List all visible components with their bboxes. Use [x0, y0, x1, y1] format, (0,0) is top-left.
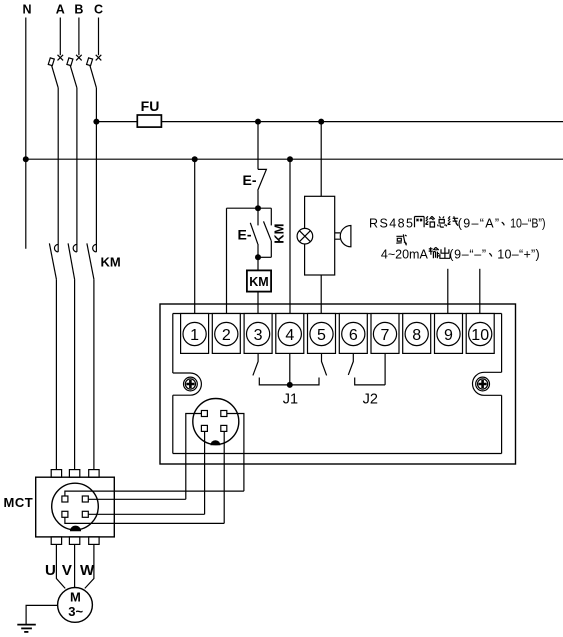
svg-text:B: B	[74, 3, 83, 17]
wire C upper	[98, 18, 100, 56]
jumper J1 terminal3 blade	[253, 353, 258, 375]
wire U lead	[56, 544, 65, 588]
connector U1 key notch	[210, 440, 220, 445]
terminal 2	[212, 314, 240, 354]
node rail1-lamp junction	[318, 119, 324, 125]
wire phase A to MCT	[55, 279, 57, 469]
MCT key notch	[70, 526, 81, 532]
wire A mid vertical	[57, 88, 59, 252]
coil KM	[257, 257, 259, 270]
breaker QF pole B	[67, 55, 82, 88]
label RS485 line3	[381, 247, 540, 261]
contactor KM pole A	[49, 243, 58, 279]
MCT bushing bottom V	[69, 537, 79, 545]
screw tab right	[473, 372, 502, 395]
svg-text:10–“+”): 10–“+”)	[497, 247, 540, 261]
MCT pin BL	[62, 511, 68, 517]
svg-text:MCT: MCT	[4, 495, 34, 510]
transformer MCT box	[36, 477, 115, 537]
svg-text:8: 8	[412, 327, 421, 344]
screw right	[476, 377, 490, 391]
wire C MCT link	[88, 513, 204, 515]
wire W lead	[85, 544, 94, 588]
wire phase C to MCT	[93, 279, 95, 469]
node parallel bottom junction	[255, 254, 261, 260]
svg-text:A: A	[56, 3, 65, 17]
svg-text:4~20mA: 4~20mA	[381, 247, 429, 261]
contactor KM pole C	[87, 243, 97, 279]
jumper J1 bracket	[259, 378, 319, 385]
wire A upper	[59, 18, 61, 56]
svg-text:(9–“–”: (9–“–”	[449, 247, 486, 261]
wire D MCT link	[65, 517, 224, 523]
wire rail 1	[96, 121, 563, 123]
wire pinTL left	[186, 414, 202, 500]
fuse FU	[137, 115, 161, 127]
svg-text:3~: 3~	[68, 604, 83, 619]
svg-text:3: 3	[254, 327, 263, 344]
label RS485 line1	[369, 216, 546, 230]
svg-text:(9–“A”: (9–“A”	[458, 216, 499, 230]
MCT pin TR	[82, 496, 88, 502]
node parallel top junction	[255, 205, 261, 211]
terminal 10	[466, 314, 494, 354]
wire rail2 to terminal 1	[194, 159, 196, 322]
sounder HA	[335, 226, 351, 247]
terminal 9	[435, 314, 463, 354]
terminal 4	[276, 314, 304, 354]
svg-text:M: M	[70, 590, 81, 605]
wire parallel top rail	[227, 207, 272, 209]
terminal 3	[244, 314, 272, 354]
wire pinBR down	[223, 431, 225, 523]
svg-text:4: 4	[285, 327, 294, 344]
node N-rail2 junction	[23, 156, 29, 162]
terminal 1	[181, 314, 209, 354]
connector U1 pin BL	[201, 425, 207, 431]
motor M circle	[58, 588, 93, 623]
lamp HL circle	[297, 228, 313, 244]
svg-text:RS485: RS485	[369, 216, 413, 230]
svg-text:W: W	[80, 562, 95, 579]
svg-text:10: 10	[471, 327, 489, 344]
svg-text:J2: J2	[363, 391, 378, 407]
wire rail2 to terminal 4	[289, 159, 291, 322]
breaker QF pole C	[87, 55, 102, 88]
screw tab left	[173, 373, 202, 395]
wire B upper	[78, 18, 80, 56]
wire N vertical	[25, 18, 27, 249]
node J1 junction	[287, 382, 293, 388]
wire A MCT link	[65, 491, 244, 496]
connector U1 pin BR	[221, 425, 227, 431]
terminal 8	[403, 314, 431, 354]
svg-text:V: V	[62, 562, 72, 579]
wire C mid vertical	[95, 88, 97, 252]
wire pinBL down	[204, 431, 206, 514]
wire branch to terminal 2	[226, 208, 228, 322]
ground symbol	[17, 625, 36, 632]
screw left	[184, 377, 198, 391]
svg-text:E-: E-	[243, 172, 257, 188]
MCT pin BR	[82, 511, 88, 517]
terminal 6	[339, 314, 367, 354]
jumper J2 terminal6 blade	[348, 353, 353, 375]
wire to terminal 9	[447, 269, 449, 323]
svg-text:FU: FU	[141, 98, 160, 114]
node rail2-t4 junction	[287, 156, 293, 162]
svg-text:5: 5	[317, 327, 326, 344]
connector U1 pin TL	[201, 411, 207, 417]
label huo	[396, 234, 406, 245]
lamp unit box	[305, 196, 335, 275]
wire to terminal 10	[479, 269, 481, 323]
wire terminal4 to J1	[289, 353, 291, 385]
svg-text:KM: KM	[249, 275, 268, 289]
wire pinTR right	[227, 414, 244, 492]
svg-text:9: 9	[444, 327, 453, 344]
MCT bushing bottom W	[89, 537, 99, 545]
switch E- upper	[258, 122, 267, 209]
breaker QF pole A	[48, 55, 63, 88]
lamp branch wire	[320, 122, 322, 197]
node C-rail1 junction	[93, 119, 99, 125]
wire motor to ground	[26, 605, 57, 624]
contact KM auxiliary	[258, 208, 271, 257]
MCT bushing bottom U	[51, 537, 61, 545]
wire phase B to MCT	[74, 279, 76, 469]
svg-text:E-: E-	[238, 226, 252, 242]
MCT bushing top B	[69, 470, 79, 478]
wire coil to terminal 3	[257, 292, 259, 323]
svg-text:10–“B”): 10–“B”)	[510, 217, 546, 231]
terminal 5	[308, 314, 336, 354]
MCT connector circle	[52, 483, 99, 530]
svg-text:6: 6	[349, 327, 358, 344]
wire B mid vertical	[76, 88, 78, 252]
connector U1 pin TR	[221, 411, 227, 417]
MCT bushing top A	[51, 470, 61, 478]
svg-text:KM: KM	[272, 224, 287, 244]
wire rail 2	[26, 158, 563, 160]
contactor KM pole B	[68, 243, 77, 279]
svg-text:2: 2	[222, 327, 231, 344]
contact E- (start button)	[250, 208, 258, 257]
svg-text:C: C	[94, 3, 103, 17]
svg-text:J1: J1	[283, 391, 298, 407]
node rail1-E junction	[255, 119, 261, 125]
jumper J1 terminal5 blade	[322, 353, 327, 375]
wire B MCT link	[88, 498, 186, 500]
MCT bushing top C	[89, 470, 99, 478]
svg-text:U: U	[45, 562, 56, 579]
svg-text:N: N	[22, 3, 31, 17]
MCT pin TL	[62, 496, 68, 502]
svg-text:7: 7	[381, 327, 390, 344]
jumper J2 bracket	[355, 378, 385, 385]
connector socket U1 circle	[193, 399, 239, 445]
node rail2-t1 junction	[192, 156, 198, 162]
wire lamp to terminal 5	[320, 275, 322, 322]
wire V lead	[74, 544, 76, 587]
terminal 7	[371, 314, 399, 354]
meter outer box	[160, 304, 516, 464]
wire terminal7 to J2	[384, 353, 386, 385]
svg-text:1: 1	[190, 327, 199, 344]
svg-text:KM: KM	[101, 254, 121, 269]
meter inner panel outline	[173, 314, 502, 454]
